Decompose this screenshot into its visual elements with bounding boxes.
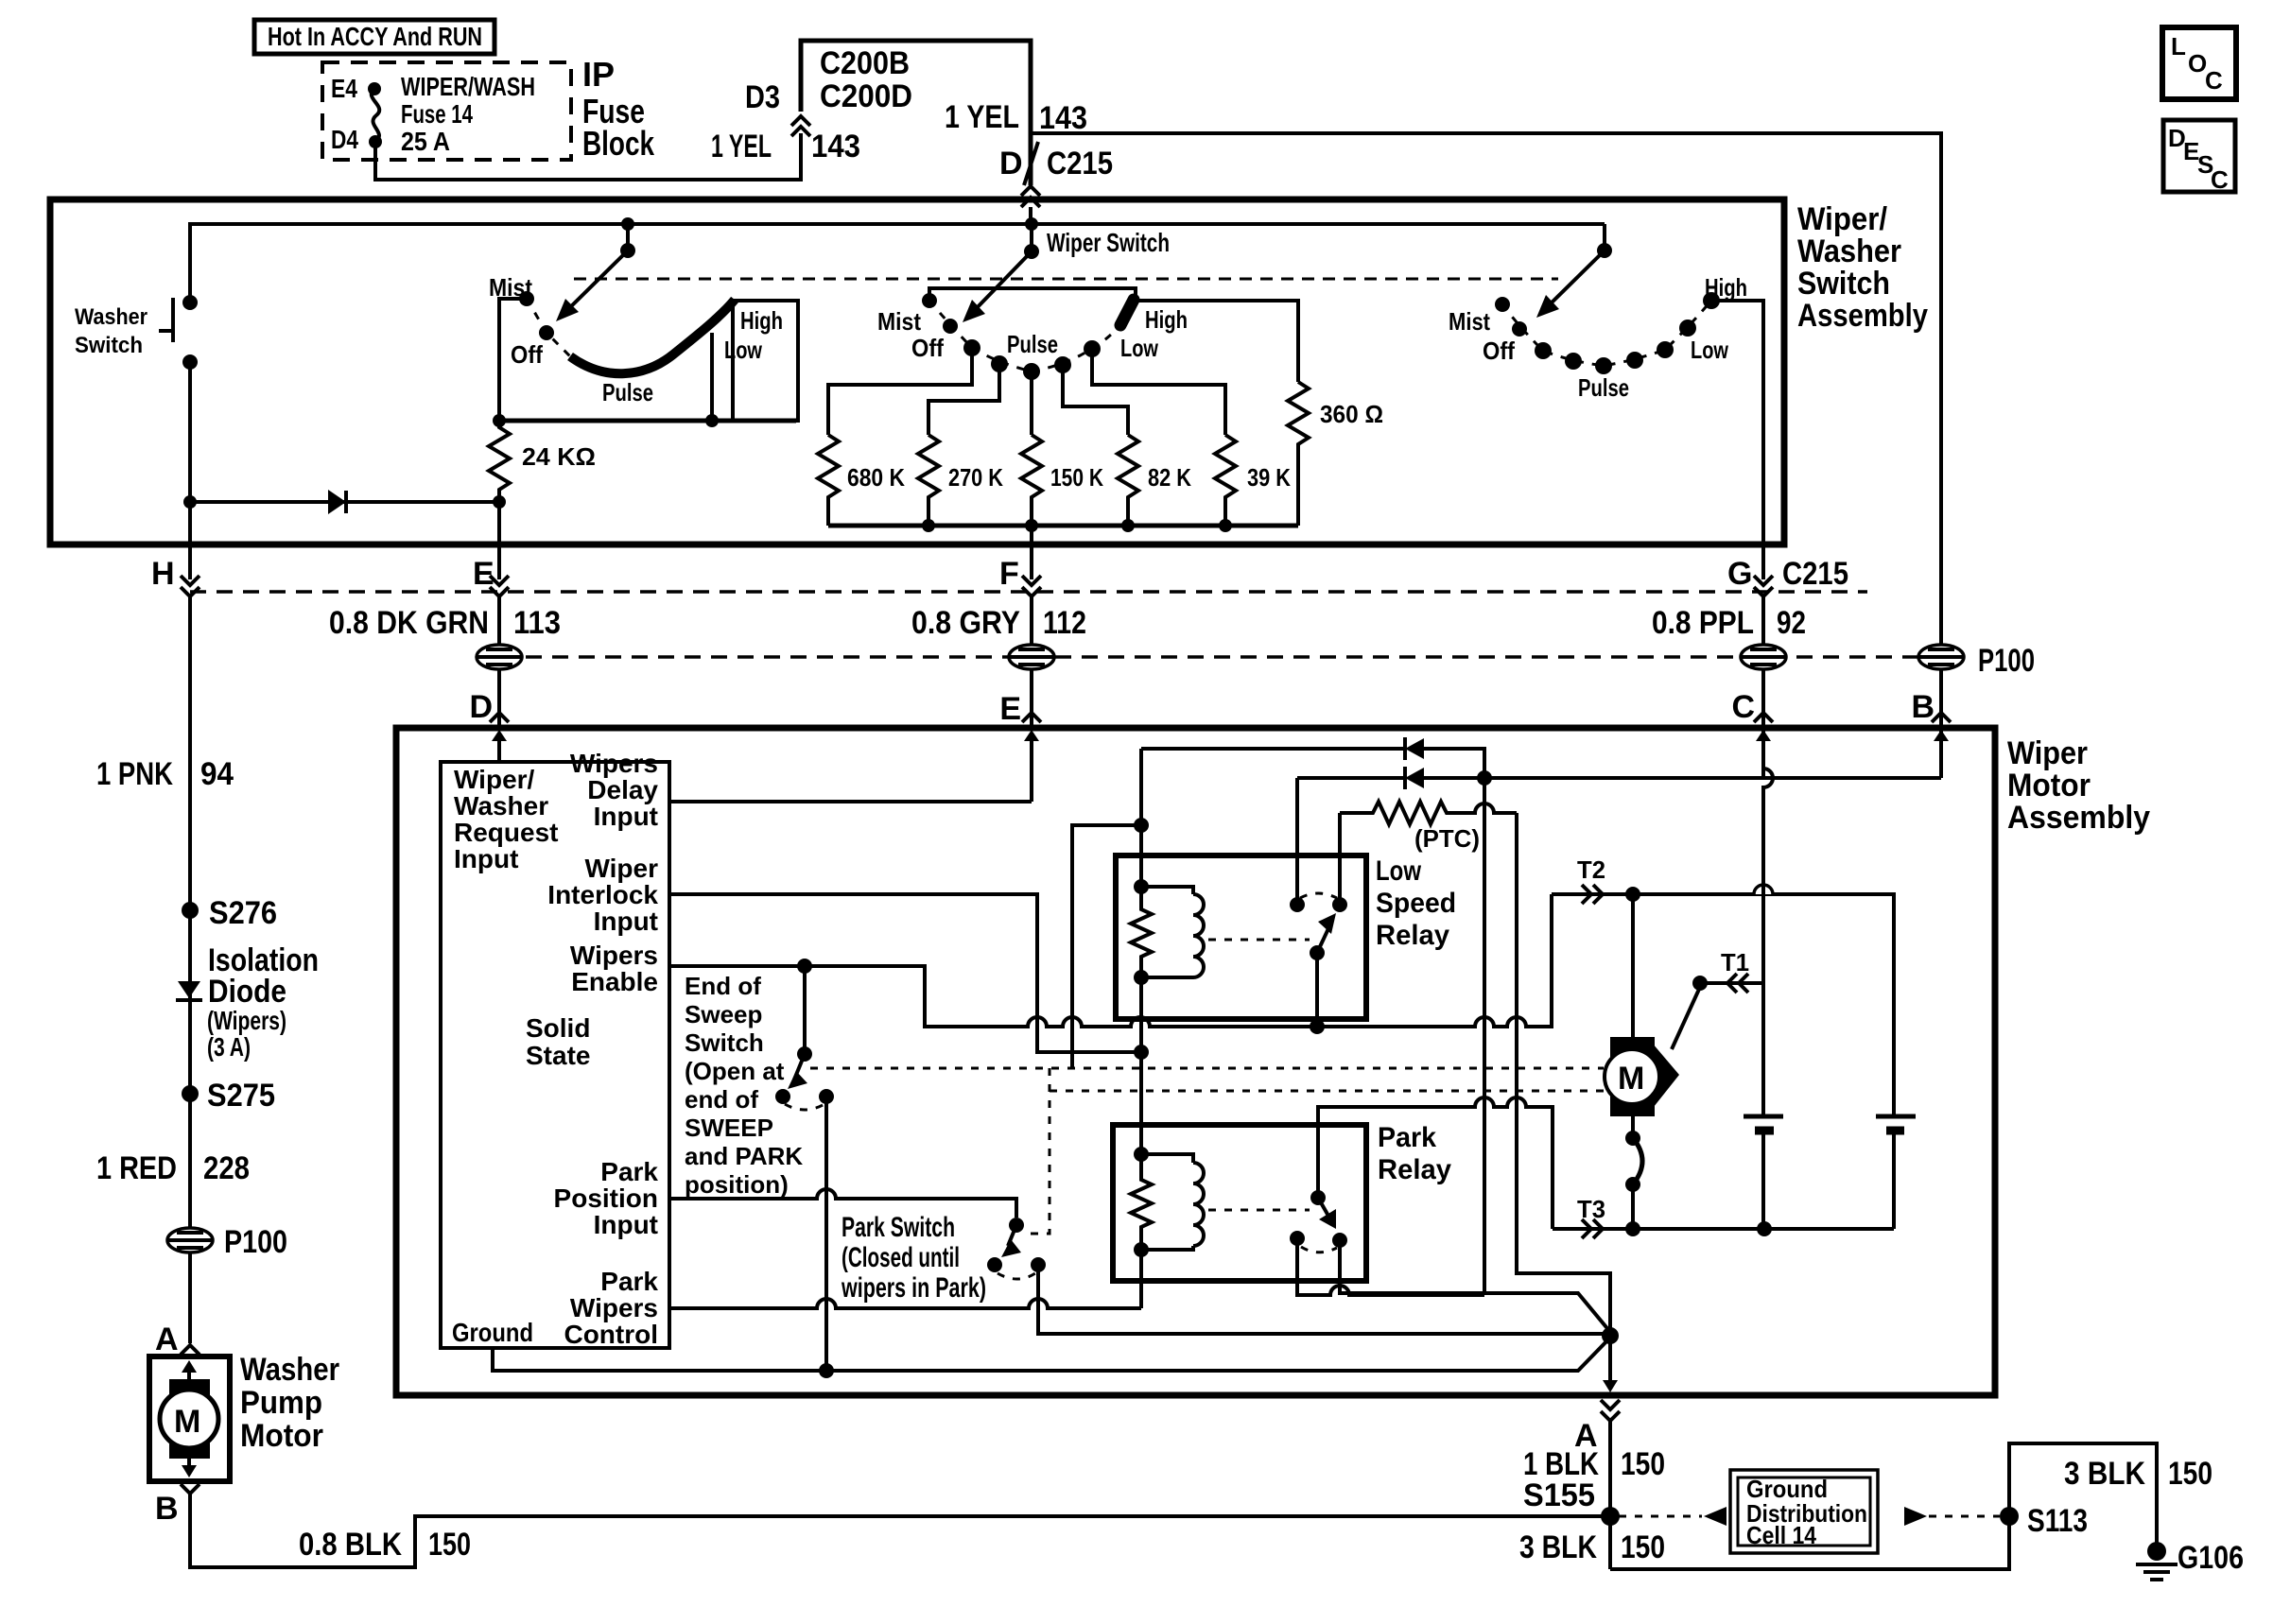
park relay coil resistor [1134,1147,1149,1162]
svg-text:IP: IP [582,55,615,94]
svg-text:Park: Park [600,1157,658,1186]
svg-text:Pulse: Pulse [1007,330,1058,358]
svg-text:92: 92 [1777,605,1806,641]
park relay right contact wire [1340,1240,1610,1332]
svg-text:Solid: Solid [526,1013,590,1043]
svg-text:D: D [469,689,493,725]
washer diode wire [183,495,197,509]
relay common wire [1315,953,1319,1027]
switch1 common contact [539,325,554,340]
svg-text:H: H [151,556,175,592]
svg-text:M: M [1618,1061,1644,1097]
wiper motor M [1631,894,1635,1049]
LOC box [2162,27,2236,99]
resistor bus wire [828,524,1298,528]
diode CR2 [1405,768,1424,788]
svg-text:E: E [999,691,1021,727]
svg-text:Assembly: Assembly [1797,298,1928,334]
wire 0.8 BLK 150 [190,1494,1610,1567]
DESC box [2163,120,2235,192]
svg-text:680 K: 680 K [847,463,905,492]
P100 dashed pass-through line [499,655,1941,659]
park switch output wire to A [1038,1265,1610,1334]
switch2 tap wires [828,348,972,435]
svg-text:Wipers: Wipers [570,1293,658,1322]
entry arrow E [1030,735,1033,802]
svg-text:T3: T3 [1577,1195,1605,1223]
F column wire [1030,526,1033,579]
end of sweep switch [803,966,807,1054]
inner feed wire [190,224,1605,302]
svg-text:A: A [155,1322,179,1357]
resistor 680 K [818,435,839,526]
splice S275 [182,1085,199,1102]
svg-text:SWEEP: SWEEP [685,1114,773,1142]
switch3 common contact [1512,321,1527,337]
svg-text:3 BLK: 3 BLK [1519,1529,1597,1565]
park switch [1009,1218,1024,1233]
entry arrow D [497,735,501,762]
svg-text:Fuse 14: Fuse 14 [401,99,473,129]
node A junction [1602,1327,1619,1344]
E column wire [497,502,501,579]
svg-text:1 RED: 1 RED [96,1150,177,1186]
entry arrow B [1939,735,1943,778]
svg-text:Interlock: Interlock [547,880,658,909]
park coil to control wire [1139,1250,1143,1308]
ground distribution dashed left [1619,1515,1702,1518]
svg-text:Pulse: Pulse [1578,373,1629,402]
grommet P100 at E [477,645,522,669]
svg-text:Wiper/: Wiper/ [1797,201,1888,237]
svg-text:L: L [2171,32,2186,60]
svg-text:Speed: Speed [1376,888,1456,919]
svg-text:C200B: C200B [820,45,910,81]
svg-text:82 K: 82 K [1148,463,1191,492]
svg-text:25 A: 25 A [401,127,450,156]
svg-text:Off: Off [511,340,543,369]
washer switch lower wire [188,362,192,579]
svg-text:Washer: Washer [240,1352,339,1388]
svg-text:228: 228 [203,1150,250,1186]
svg-text:B: B [155,1491,179,1527]
svg-text:Off: Off [911,334,944,362]
switch2 position contacts [963,339,980,356]
node switch1 feed [621,217,634,231]
park relay coil inductor [1141,1154,1193,1163]
park coil feed column [1139,977,1143,1154]
svg-text:Assembly: Assembly [2007,800,2150,836]
svg-text:Washer: Washer [75,304,147,330]
svg-text:Relay: Relay [1376,920,1449,951]
svg-text:Sweep: Sweep [685,1000,762,1028]
column wires to grommets [497,596,501,646]
svg-text:Hot In ACCY And RUN: Hot In ACCY And RUN [268,22,482,51]
svg-text:24 KΩ: 24 KΩ [522,442,596,471]
svg-text:High: High [740,306,783,335]
park relay common riser to T3 [1318,1097,1553,1229]
svg-text:Pump: Pump [240,1385,322,1421]
resistor 150 K [1021,435,1042,526]
washer switch [182,295,198,310]
svg-text:0.8 PPL: 0.8 PPL [1652,605,1754,641]
svg-text:143: 143 [1039,100,1087,136]
svg-text:3 BLK: 3 BLK [2064,1456,2145,1492]
svg-text:Off: Off [1483,337,1515,365]
svg-text:Cell 14: Cell 14 [1746,1521,1816,1549]
IP fuse block dashed box [322,62,571,160]
splice S113 [2000,1507,2019,1526]
C200B C200D connector box [801,41,1031,185]
H column wire [188,596,192,1343]
wire S113 to G106 [2009,1443,2157,1543]
svg-text:S276: S276 [209,895,277,931]
motor circuit breaker [1631,1116,1635,1138]
svg-text:D3: D3 [745,79,780,115]
svg-text:WIPER/WASH: WIPER/WASH [401,72,535,101]
connector D3 [791,116,810,136]
ganged switch dashed link [574,278,1558,281]
wire fuse to C200 connector [375,133,801,180]
svg-text:T1: T1 [1721,948,1749,976]
svg-text:94: 94 [200,756,234,792]
svg-text:T2: T2 [1577,855,1605,884]
svg-text:0.8 GRY: 0.8 GRY [911,605,1020,641]
svg-text:1 PNK: 1 PNK [96,756,173,792]
splice S276 [182,902,199,919]
switch1 pulse contact arc [570,300,735,373]
switch2 Mist High bracket wire [929,288,1136,301]
svg-text:150: 150 [2168,1456,2212,1492]
svg-text:Wipers: Wipers [570,941,658,970]
svg-text:and PARK: and PARK [685,1142,803,1170]
capacitor battery 2 [1876,1114,1916,1119]
svg-text:State: State [526,1041,590,1070]
resistor 24 Kohm [489,421,510,502]
mechanical dashed linkage [810,1067,1604,1070]
node switch2 feed [1025,217,1038,231]
svg-text:D: D [999,146,1023,181]
svg-text:39 K: 39 K [1247,463,1291,492]
svg-text:E4: E4 [331,74,357,103]
relay coil inductor [1141,887,1193,894]
resistor 82 K [1118,435,1138,526]
svg-text:Low: Low [1376,855,1422,887]
connector B washer pump [181,1484,200,1494]
column x1604 to A node [1517,813,1610,1336]
relay switch [1310,945,1325,960]
wiper interlock input wire [669,894,1141,1052]
park relay left contact wire [1297,1238,1484,1295]
svg-text:Input: Input [594,802,658,831]
svg-text:M: M [174,1404,200,1440]
svg-text:Relay: Relay [1378,1154,1451,1185]
svg-text:Delay: Delay [587,775,658,804]
svg-text:0.8 DK GRN: 0.8 DK GRN [329,605,489,641]
svg-text:Control: Control [564,1320,658,1349]
grommet P100 washer [167,1228,213,1253]
svg-text:D4: D4 [331,125,358,154]
svg-text:112: 112 [1043,605,1086,641]
svg-text:S155: S155 [1523,1477,1595,1513]
wire S155 loop to S113 [1610,1516,2009,1569]
svg-text:1 YEL: 1 YEL [711,129,772,164]
svg-text:Enable: Enable [571,967,658,996]
svg-text:Low: Low [1120,334,1159,362]
svg-text:150: 150 [428,1527,471,1563]
solid state module [441,762,669,1348]
diode feed wire upper [1141,747,1403,751]
svg-text:0.8 BLK: 0.8 BLK [299,1527,402,1563]
park wipers control wire [669,1299,1141,1308]
grommet P100 at F [1009,645,1054,669]
svg-text:end of: end of [685,1085,758,1114]
svg-text:Washer: Washer [454,791,548,821]
wires grommets to motor box [497,669,501,725]
svg-text:Motor: Motor [2007,768,2091,803]
svg-text:150: 150 [1621,1529,1665,1565]
svg-text:150 K: 150 K [1050,463,1103,492]
svg-text:Input: Input [454,844,518,873]
svg-text:P100: P100 [1978,643,2035,679]
svg-text:150: 150 [1621,1446,1665,1482]
svg-text:(Open at: (Open at [685,1057,785,1085]
svg-text:Mist: Mist [877,307,921,336]
svg-text:Request: Request [454,818,558,847]
svg-text:C: C [2211,165,2229,194]
C column [1763,722,1773,1116]
svg-text:F: F [999,556,1019,592]
switch2 output to 360 ohm [1136,301,1298,382]
svg-text:Wiper Switch: Wiper Switch [1047,228,1170,257]
svg-text:High: High [1705,273,1747,302]
wiper switch 3 pivot [1603,224,1606,251]
svg-text:S113: S113 [2027,1503,2088,1539]
park relay switch [1310,1190,1326,1205]
svg-text:Low: Low [724,336,763,364]
ground wire [493,1338,1610,1371]
connector A motor [1601,1400,1620,1421]
T2 hop over C column [1754,885,1773,894]
switch2 common contact [943,319,958,334]
wiper switch 1 pivot [626,224,630,251]
svg-text:C: C [1731,689,1755,725]
svg-text:1 YEL: 1 YEL [945,99,1019,135]
switch1 High Low box [733,301,798,421]
svg-text:P100: P100 [224,1224,287,1260]
B column lower [1939,722,1943,778]
svg-text:wipers in Park): wipers in Park) [841,1272,986,1304]
svg-text:Low: Low [1691,336,1729,364]
wipers delay input wire [669,800,1032,803]
svg-text:270 K: 270 K [948,463,1003,492]
svg-text:C: C [2205,66,2223,95]
entry arrow C [1761,735,1765,778]
svg-text:Park: Park [600,1267,658,1296]
svg-text:C215: C215 [1782,556,1848,592]
svg-text:Wiper: Wiper [2007,735,2088,771]
diode feed wire lower [1297,776,1403,780]
svg-text:G: G [1727,556,1752,592]
resistor 39 K [1215,435,1236,526]
ground G106 [2147,1542,2166,1561]
relay contact risers [1295,778,1299,905]
connector D C215 [1024,142,1038,185]
grommet P100 at B [1918,645,1964,669]
switch2 High bar [1120,300,1134,325]
svg-text:(3 A): (3 A) [207,1032,251,1062]
svg-text:C200D: C200D [820,78,912,114]
svg-text:(Closed until: (Closed until [842,1242,960,1273]
svg-text:Input: Input [594,1210,658,1239]
grommet P100 at G [1741,645,1786,669]
svg-text:Pulse: Pulse [602,378,653,406]
park position input wire [669,1189,1016,1218]
svg-text:143: 143 [811,129,860,164]
svg-text:S275: S275 [207,1078,275,1114]
park relay actuation dashed [1208,1209,1310,1212]
svg-text:End of: End of [685,972,761,1000]
run feed column x1570 [1483,778,1486,1295]
svg-text:Mist: Mist [1449,307,1490,336]
svg-text:(PTC): (PTC) [1414,824,1480,853]
ground distribution cell box [1730,1470,1878,1553]
switch3 position contacts [1535,342,1552,359]
svg-text:Motor: Motor [240,1418,323,1454]
svg-text:113: 113 [513,605,561,641]
svg-text:C215: C215 [1047,146,1113,181]
Hot In ACCY And RUN box [254,20,495,54]
washer pump motor [149,1356,230,1481]
svg-text:Position: Position [554,1183,658,1213]
splice S155 [1601,1507,1620,1526]
svg-text:B: B [1911,689,1935,725]
branch wire x1134 [1072,825,1141,1068]
svg-text:Switch: Switch [685,1028,764,1057]
C215 dashed connector line [190,590,1867,594]
switch1 Low tap wire [710,333,714,421]
coil feed column [1139,749,1143,887]
svg-text:Park Switch: Park Switch [842,1212,955,1243]
wipers enable wire [669,894,1552,1027]
resistor 360 ohm [1288,382,1309,526]
svg-text:High: High [1145,305,1188,334]
svg-text:(Wipers): (Wipers) [207,1006,286,1035]
svg-text:G106: G106 [2178,1540,2244,1576]
diode symbol [328,490,346,514]
svg-text:Wiper/: Wiper/ [454,765,535,794]
svg-text:Block: Block [582,124,655,163]
svg-text:Wiper: Wiper [584,854,658,883]
wiper motor assembly box [396,728,1995,1395]
PTC resistor [1340,802,1517,824]
svg-text:360 Ω: 360 Ω [1320,400,1383,428]
svg-text:Switch: Switch [1797,266,1890,302]
svg-text:Diode: Diode [208,974,286,1010]
svg-text:Washer: Washer [1797,233,1901,269]
switch3 High output wire [1711,301,1763,579]
svg-text:Ground: Ground [452,1318,533,1347]
diode CR1 [1405,738,1424,759]
wiper washer switch assembly box [50,199,1784,544]
switch1 output bus wire [499,419,796,423]
svg-text:Wipers: Wipers [570,749,658,778]
resistor 270 K [918,435,939,526]
svg-text:Park: Park [1378,1122,1436,1153]
svg-text:Input: Input [594,907,658,936]
relay coil resistor [1134,879,1149,894]
wire 143 feed to B column [1031,133,1941,651]
svg-text:position): position) [685,1170,789,1199]
park relay box [1113,1125,1366,1281]
fuse 14 WIPER/WASH 25A [372,89,379,142]
capacitor battery 1 [1744,1114,1783,1119]
low speed relay box [1116,855,1366,1019]
relay actuation dashed [1208,939,1310,942]
svg-text:Switch: Switch [75,333,143,358]
